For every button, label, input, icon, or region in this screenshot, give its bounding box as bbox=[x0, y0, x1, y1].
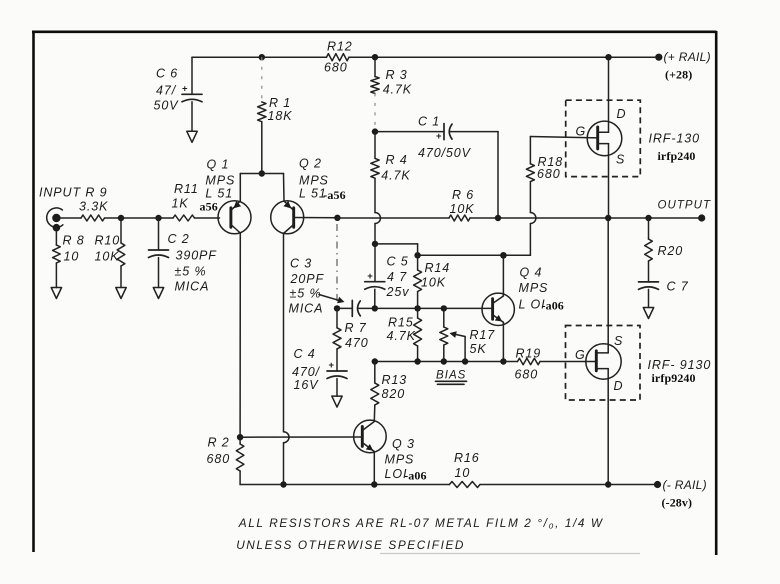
svg-text:R 2: R 2 bbox=[208, 435, 230, 449]
svg-text:R 7: R 7 bbox=[345, 321, 367, 335]
svg-text:820: 820 bbox=[382, 387, 406, 401]
svg-text:S: S bbox=[614, 334, 623, 348]
svg-text:680: 680 bbox=[537, 167, 561, 181]
svg-text:R12: R12 bbox=[327, 40, 353, 54]
svg-text:(-28v): (-28v) bbox=[662, 496, 693, 510]
svg-text:MICA: MICA bbox=[175, 279, 210, 293]
svg-text:C 6: C 6 bbox=[156, 67, 178, 81]
svg-text:470: 470 bbox=[345, 336, 369, 350]
svg-text:L 51: L 51 bbox=[205, 186, 233, 200]
svg-text:25v: 25v bbox=[386, 285, 410, 299]
svg-text:+: + bbox=[436, 131, 442, 142]
svg-text:47/: 47/ bbox=[156, 84, 177, 98]
svg-text:+: + bbox=[182, 84, 188, 95]
svg-text:470/50V: 470/50V bbox=[418, 146, 472, 160]
svg-text:C 1: C 1 bbox=[418, 115, 440, 129]
svg-text:R 3: R 3 bbox=[386, 68, 408, 82]
svg-text:10K: 10K bbox=[421, 275, 446, 289]
svg-text:16V: 16V bbox=[294, 378, 320, 392]
svg-text:R13: R13 bbox=[382, 373, 408, 387]
svg-text:ALL RESISTORS ARE RL-07 MET: ALL RESISTORS ARE RL-07 METAL FILM 2 °/₀… bbox=[238, 516, 604, 530]
svg-text:R14: R14 bbox=[425, 261, 451, 275]
svg-text:a56: a56 bbox=[200, 200, 218, 214]
svg-text:R 6: R 6 bbox=[452, 188, 474, 202]
svg-text:MPS: MPS bbox=[519, 281, 549, 295]
svg-text:D: D bbox=[614, 379, 624, 393]
svg-text:Q 1: Q 1 bbox=[207, 157, 230, 171]
svg-text:irfp9240: irfp9240 bbox=[652, 371, 696, 385]
svg-text:Q 2: Q 2 bbox=[299, 156, 322, 170]
svg-text:10: 10 bbox=[64, 249, 80, 263]
svg-text:-a06: -a06 bbox=[542, 299, 564, 313]
svg-text:-a56: -a56 bbox=[323, 188, 345, 202]
svg-text:R17: R17 bbox=[470, 328, 496, 342]
svg-text:R16: R16 bbox=[454, 451, 480, 465]
svg-text:C 4: C 4 bbox=[294, 347, 316, 361]
svg-text:R19: R19 bbox=[516, 346, 542, 360]
svg-text:INPUT R 9: INPUT R 9 bbox=[39, 185, 108, 199]
svg-text:4.7K: 4.7K bbox=[381, 168, 410, 182]
svg-text:-a06: -a06 bbox=[404, 468, 426, 482]
svg-text:±5 %: ±5 % bbox=[290, 286, 322, 300]
svg-text:1K: 1K bbox=[172, 196, 189, 210]
svg-text:R15: R15 bbox=[388, 316, 414, 330]
svg-text:18K: 18K bbox=[268, 109, 293, 123]
svg-text:R 4: R 4 bbox=[386, 153, 408, 167]
svg-text:3.3K: 3.3K bbox=[79, 199, 108, 213]
svg-text:10K: 10K bbox=[450, 202, 475, 216]
svg-text:(- RAIL): (- RAIL) bbox=[663, 478, 707, 492]
svg-text:(+ RAIL): (+ RAIL) bbox=[664, 50, 711, 64]
svg-text:R11: R11 bbox=[174, 182, 199, 196]
svg-text:680: 680 bbox=[515, 368, 539, 382]
svg-text:G: G bbox=[575, 348, 586, 362]
svg-text:5K: 5K bbox=[470, 342, 487, 356]
svg-text:C 7: C 7 bbox=[667, 280, 689, 294]
svg-text:IRF- 9130: IRF- 9130 bbox=[648, 358, 712, 372]
svg-text:C 3: C 3 bbox=[290, 257, 312, 271]
svg-text:20PF: 20PF bbox=[290, 272, 325, 286]
svg-text:50V: 50V bbox=[154, 99, 180, 113]
svg-text:MPS: MPS bbox=[385, 452, 415, 466]
svg-text:BIAS: BIAS bbox=[436, 369, 466, 381]
svg-text:C 2: C 2 bbox=[168, 232, 190, 246]
svg-text:R 1: R 1 bbox=[269, 96, 291, 110]
svg-text:OUTPUT: OUTPUT bbox=[658, 200, 712, 212]
svg-text:IRF-130: IRF-130 bbox=[649, 132, 700, 146]
svg-text:R20: R20 bbox=[658, 244, 684, 258]
svg-text:D: D bbox=[617, 107, 627, 121]
svg-text:C 5: C 5 bbox=[387, 254, 409, 268]
svg-text:R10: R10 bbox=[95, 233, 121, 247]
svg-text:4 7: 4 7 bbox=[387, 270, 407, 284]
svg-text:G: G bbox=[576, 125, 587, 139]
svg-text:±5 %: ±5 % bbox=[175, 264, 207, 278]
svg-text:10K: 10K bbox=[95, 249, 120, 263]
svg-text:680: 680 bbox=[207, 452, 231, 466]
svg-text:Q 4: Q 4 bbox=[520, 265, 543, 279]
svg-text:4.7K: 4.7K bbox=[387, 329, 416, 343]
svg-text:Q 3: Q 3 bbox=[392, 437, 415, 451]
svg-text:+: + bbox=[367, 271, 373, 282]
svg-text:680: 680 bbox=[324, 61, 348, 75]
svg-text:10: 10 bbox=[455, 466, 471, 480]
svg-text:(+28): (+28) bbox=[665, 67, 692, 81]
svg-text:4.7K: 4.7K bbox=[383, 82, 412, 96]
svg-text:+: + bbox=[329, 360, 335, 371]
svg-text:UNLESS OTHERWISE SPECIFIED: UNLESS OTHERWISE SPECIFIED bbox=[236, 538, 465, 552]
svg-text:R 8: R 8 bbox=[63, 233, 85, 247]
svg-text:S: S bbox=[616, 153, 625, 167]
svg-text:MICA: MICA bbox=[289, 301, 324, 315]
svg-text:390PF: 390PF bbox=[176, 249, 218, 263]
svg-text:irfp240: irfp240 bbox=[658, 149, 696, 163]
svg-text:470/: 470/ bbox=[292, 365, 321, 379]
